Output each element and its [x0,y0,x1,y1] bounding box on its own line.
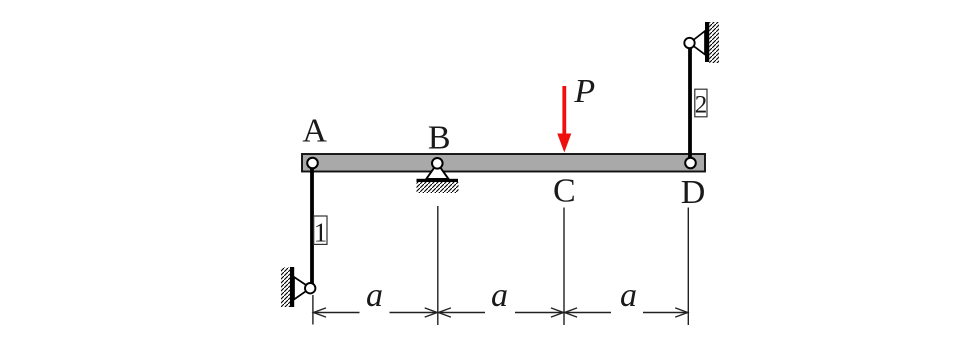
force P arrow [562,86,566,137]
svg-text:a: a [366,277,383,314]
support B hatching [417,182,459,193]
svg-text:1: 1 [314,217,328,247]
svg-text:2: 2 [695,91,708,118]
beam A-D [302,154,705,172]
svg-text:a: a [491,277,508,314]
dim arrow right @D [675,308,688,317]
dimension line segment 3 [564,312,611,314]
extension line below D [687,208,689,326]
roller support B triangle [426,163,448,179]
hatching (top-right wall) [709,22,719,63]
svg-text:a: a [620,277,637,314]
wall (bottom-left anchorage) [290,267,294,307]
pin circle A [307,158,318,169]
pin circle (top-right) [684,38,694,48]
support B base bar [417,179,459,182]
pin bracket (top-right triangle) [690,31,706,55]
pin circle (bottom-left) [305,283,315,293]
wall (top-right anchorage) [705,22,709,62]
dim arrow left @A [314,308,327,317]
rod 2 (member DF) [688,44,692,163]
dimension line segment 2 [438,312,485,314]
pin circle D [685,158,696,169]
svg-text:D: D [681,174,706,211]
svg-text:P: P [573,73,595,110]
label box rod 2 [695,89,707,117]
dim arrow left @B [438,308,451,317]
pin circle B [432,158,443,169]
hatching (bottom-left wall) [281,268,290,308]
svg-text:B: B [428,119,451,156]
extension line below A [312,295,314,325]
dim arrow right @C [551,308,564,317]
svg-text:C: C [553,172,576,209]
dim arrow left @C [565,308,578,317]
rod 1 (member AE) [310,164,314,287]
extension line below B [437,206,439,325]
label box rod 1 [314,216,327,244]
extension line below C [563,208,565,326]
svg-text:A: A [302,112,327,149]
pin bracket (bottom-left triangle) [294,277,311,300]
dim arrow right @B [425,308,438,317]
dimension line segment 1 [313,312,360,314]
